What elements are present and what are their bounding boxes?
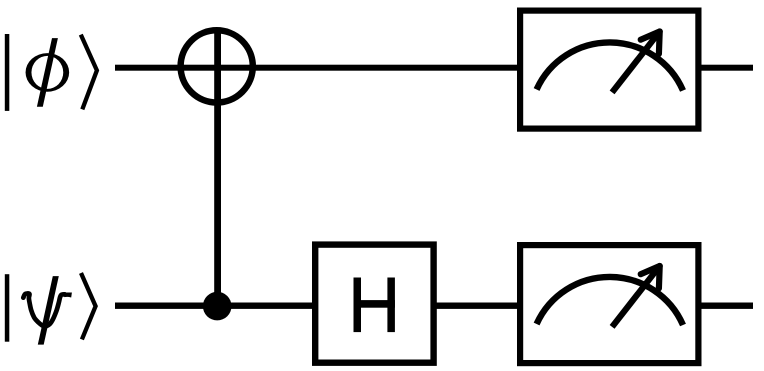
label ket-psi rangle xyxy=(81,273,96,339)
label ket-psi glyph psi bowl xyxy=(23,293,65,326)
label ket-psi glyph psi right serif xyxy=(64,293,72,298)
meter M1 needle arrowhead lower barb xyxy=(656,32,663,54)
label ket-phi rangle xyxy=(81,35,97,110)
wire bottom qubit xyxy=(115,303,753,309)
meter M2 box (bottom qubit measurement) xyxy=(520,245,698,363)
label ket-psi bar xyxy=(5,274,10,342)
wire CNOT vertical control line xyxy=(214,30,221,306)
meter M1 needle arrowhead left barb xyxy=(641,32,660,40)
meter M1 gauge arc xyxy=(537,42,683,90)
label ket-phi bar xyxy=(5,34,10,111)
CNOT target ring (XOR) on top qubit xyxy=(181,30,253,102)
gate H letter crossbar xyxy=(354,300,395,308)
meter M1 box (top qubit measurement) xyxy=(520,11,698,129)
meter M2 needle arrowhead lower barb xyxy=(656,266,663,288)
meter M2 gauge arc xyxy=(537,277,683,325)
wire top qubit xyxy=(115,65,753,71)
CNOT control dot on bottom qubit xyxy=(203,292,232,321)
gate H box xyxy=(315,245,433,363)
meter M2 needle shaft xyxy=(612,266,660,327)
label ket-phi glyph phi slash xyxy=(37,38,58,107)
meter M1 needle shaft xyxy=(612,32,660,93)
label ket-psi glyph psi stem xyxy=(38,276,59,345)
label ket-phi glyph phi bowl xyxy=(26,53,70,92)
gate H letter left stem xyxy=(354,278,362,333)
meter M2 needle arrowhead left barb xyxy=(641,266,660,274)
gate H letter right stem xyxy=(387,278,395,333)
